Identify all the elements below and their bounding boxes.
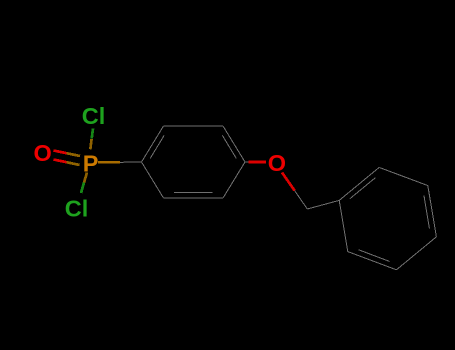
bond C4-O2 O half (red) bbox=[249, 161, 267, 164]
svg-text:Cl: Cl bbox=[65, 196, 89, 222]
bond P-Cl bottom, P half (orange) bbox=[84, 173, 87, 183]
bond P-C1 (to ring), C half (gray) bbox=[120, 161, 142, 163]
benzene ring 2 edge C-D bbox=[428, 186, 437, 237]
bond O2-CH2, C half (gray) bbox=[295, 191, 308, 209]
benzene ring 2 inner double bond A-B bbox=[350, 178, 376, 199]
benzene ring 1 inner double bond L-TL bbox=[150, 135, 164, 158]
benzene ring 2 inner double bond E-F bbox=[358, 250, 389, 262]
benzene ring 1 inner double bond BR-BL bbox=[174, 192, 212, 194]
bond P-C1 (to ring), P half (orange) bbox=[98, 161, 120, 164]
bond CH2-ipso carbon (gray) bbox=[307, 200, 339, 209]
bond C4-O2 C half (gray stub) bbox=[245, 161, 249, 163]
benzene ring 1 edge R-BR bbox=[223, 162, 245, 198]
benzene ring 2 inner double bond C-D bbox=[424, 196, 429, 229]
bond P-Cl top, P half (orange) bbox=[90, 139, 91, 149]
svg-text:O: O bbox=[34, 140, 52, 166]
benzene ring 1 edge L-TL bbox=[142, 126, 164, 162]
bond P=O lower line, O half (red) bbox=[54, 160, 67, 163]
benzene ring 2 edge D-E bbox=[396, 237, 436, 270]
benzene ring 1 edge TL-TR (top) bbox=[164, 125, 224, 127]
benzene ring 1 edge BR-BL (bottom) bbox=[164, 197, 224, 199]
svg-text:Cl: Cl bbox=[82, 103, 106, 129]
svg-text:O: O bbox=[268, 150, 286, 176]
benzene ring 2 edge E-F bbox=[348, 252, 397, 270]
benzene ring 2 edge F-A bbox=[339, 200, 348, 251]
benzene ring 1 edge TR-R bbox=[223, 126, 245, 162]
bond P=O upper line, O half (red) bbox=[54, 151, 67, 154]
bond P-Cl bottom, Cl half (green) bbox=[81, 183, 84, 194]
bond P=O lower line, P half (orange) bbox=[67, 162, 80, 165]
benzene ring 2 edge B-C bbox=[379, 167, 428, 185]
benzene ring 1 edge BL-L bbox=[142, 162, 164, 198]
svg-text:P: P bbox=[83, 150, 99, 176]
benzene ring 2 edge A-B bbox=[339, 167, 379, 200]
benzene ring 1 inner double bond TR-R bbox=[222, 135, 236, 158]
bond P=O upper line, P half (orange) bbox=[67, 153, 81, 156]
bond O2-CH2, O half (red) bbox=[282, 173, 295, 191]
bond P-Cl top, Cl half (green) bbox=[92, 129, 93, 139]
